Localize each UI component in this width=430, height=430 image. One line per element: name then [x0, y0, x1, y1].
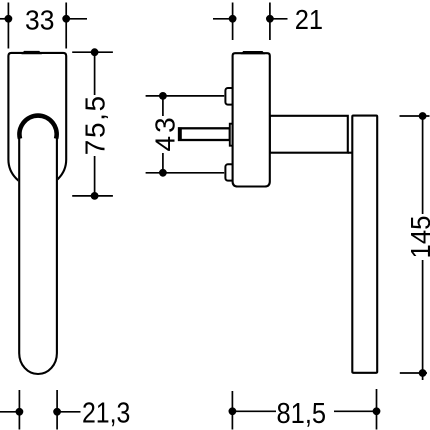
svg-text:33: 33 — [25, 5, 54, 36]
svg-text:81,5: 81,5 — [277, 398, 327, 430]
svg-text:75,5: 75,5 — [80, 96, 111, 155]
svg-text:145: 145 — [405, 216, 430, 259]
svg-text:21,3: 21,3 — [82, 397, 130, 429]
svg-text:21: 21 — [295, 4, 323, 35]
